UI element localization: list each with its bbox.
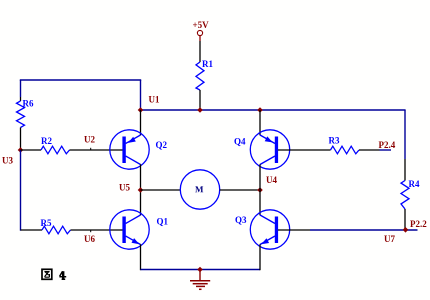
wire: R3 right pin — [359, 149, 380, 151]
svg-text:Q3: Q3 — [235, 215, 247, 225]
svg-text:U3: U3 — [2, 156, 13, 166]
svg-text:R5: R5 — [41, 218, 52, 228]
resistor R2 — [41, 136, 70, 154]
motor M — [180, 170, 219, 209]
wire: right vertical — [404, 110, 406, 159]
node: rail junction at Q4 — [257, 107, 263, 113]
wire: Q3 emitter pin — [259, 244, 261, 270]
wire: main top rail — [141, 109, 406, 111]
svg-text:M: M — [195, 184, 204, 194]
svg-text:Q2: Q2 — [156, 140, 168, 150]
svg-text:R4: R4 — [409, 179, 420, 189]
wire: P2.2 horizontal — [310, 229, 418, 231]
svg-text:U4: U4 — [266, 175, 277, 185]
svg-text:Q4: Q4 — [234, 137, 246, 147]
svg-text:R1: R1 — [202, 59, 213, 69]
svg-text:Q1: Q1 — [157, 217, 169, 227]
svg-text:R3: R3 — [329, 136, 340, 146]
wire: R2 left pin — [21, 149, 42, 151]
svg-text:U1: U1 — [149, 95, 160, 105]
node U6 label — [84, 230, 95, 244]
figure caption 图 4 — [42, 269, 66, 279]
svg-text:U6: U6 — [84, 234, 95, 244]
wire: R6 top pin — [20, 97, 22, 101]
wire: left vertical upper — [20, 80, 22, 97]
resistor R1 — [196, 59, 213, 90]
wire: Q4 base to R3 — [278, 149, 331, 151]
svg-text:U5: U5 — [119, 183, 130, 193]
svg-text:R2: R2 — [41, 136, 52, 146]
transistor Q3 — [235, 210, 290, 249]
wire: branch down to rail at U1 — [140, 80, 142, 110]
wire: motor right pin — [220, 189, 260, 191]
node U5 — [119, 183, 143, 193]
wire: Q2 emitter to Q1 collector (through U5) — [140, 164, 142, 215]
wire: Q2 collector pin — [140, 110, 142, 135]
node U4 — [257, 175, 277, 193]
svg-text:U7: U7 — [384, 234, 395, 244]
wire: bottom rail — [141, 269, 261, 271]
wire: R5 right pin to Q1 base — [71, 229, 123, 231]
wire: R5 left pin — [21, 229, 43, 231]
node: rail junction at R1 — [197, 107, 203, 113]
wire: R2 right pin to Q2 base — [70, 149, 123, 151]
resistor R5 — [41, 218, 71, 234]
wire: R1 bottom pin — [199, 90, 201, 110]
wire: P2.4 net stub — [380, 149, 392, 151]
svg-text:P2.2: P2.2 — [410, 219, 427, 229]
transistor Q2 — [110, 130, 168, 169]
wire: R1 top pin — [199, 41, 201, 62]
resistor R4 — [401, 179, 420, 209]
node U2 label — [84, 135, 95, 151]
ground — [190, 267, 210, 290]
transistor Q4 — [234, 130, 290, 169]
wire: R6 bottom pin — [20, 128, 22, 151]
svg-text:U2: U2 — [84, 135, 95, 145]
wire: motor left pin — [141, 189, 181, 191]
transistor Q1 — [110, 210, 169, 249]
resistor R6 — [17, 99, 34, 128]
power port +5V — [193, 20, 210, 41]
node U1 — [138, 95, 160, 113]
wire: Q1 emitter pin — [140, 244, 142, 270]
svg-text:P2.4: P2.4 — [379, 140, 396, 150]
resistor R3 — [329, 136, 360, 154]
wire: Q3 base pin — [278, 229, 310, 231]
wire: Q4 collector pin — [259, 110, 261, 135]
svg-text:+5V: +5V — [193, 20, 210, 30]
wire: left vertical lower — [20, 150, 22, 231]
svg-text:R6: R6 — [23, 99, 34, 109]
wire: top-left horizontal — [20, 79, 141, 81]
wire: R4 bottom pin — [404, 209, 406, 230]
wire: R4 top pin — [404, 159, 406, 181]
node P2.2 — [403, 219, 428, 233]
node U3 — [2, 147, 23, 165]
wire: Q4 emitter to Q3 collector (through U4) — [259, 164, 261, 215]
